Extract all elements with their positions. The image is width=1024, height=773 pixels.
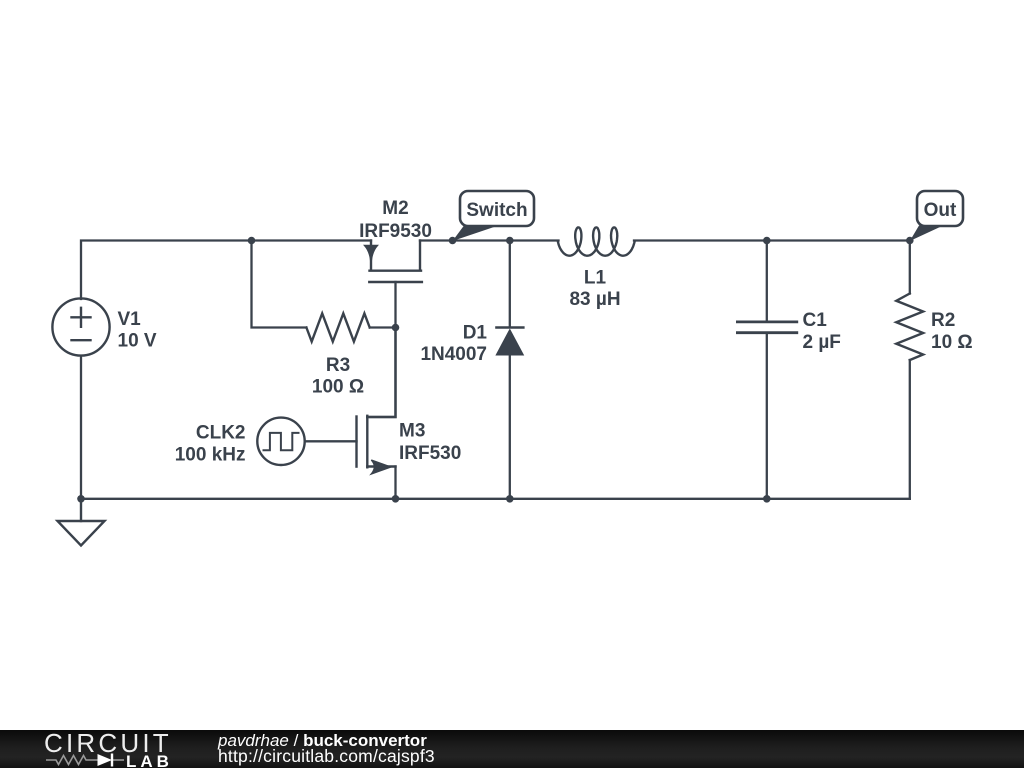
svg-text:C1: C1 (803, 310, 828, 331)
voltage source V1 (52, 298, 109, 355)
svg-text:100 kHz: 100 kHz (175, 445, 246, 466)
wire C1 top lead (766, 241, 768, 322)
wire M3 source to bottom rail (394, 467, 396, 499)
resistor R2 (896, 294, 923, 361)
footer title (218, 731, 427, 751)
clock source CLK2 (257, 418, 304, 465)
wire R3 branch from top rail (252, 241, 307, 328)
svg-text:10 Ω: 10 Ω (931, 332, 973, 353)
node junction D1 bottom (506, 495, 514, 503)
svg-text:R2: R2 (931, 310, 955, 331)
footer bar (0, 730, 1024, 768)
resistor R3 (306, 313, 369, 341)
node Switch (449, 237, 457, 245)
flag Switch (453, 191, 535, 241)
svg-text:V1: V1 (118, 309, 142, 330)
svg-text:IRF9530: IRF9530 (359, 221, 432, 242)
node junction R3 gate (392, 324, 400, 332)
wire bottom rail (81, 498, 910, 500)
node junction M3 source (392, 495, 400, 503)
svg-text:83 µH: 83 µH (569, 289, 620, 310)
wire V1 top lead to M2 source (81, 241, 371, 300)
transistor M2 PMOS (365, 241, 422, 283)
node junction ground (77, 495, 85, 503)
capacitor C1 (737, 322, 796, 333)
svg-text:M3: M3 (399, 421, 425, 442)
wire M2 gate lead (394, 282, 396, 328)
inductor L1 (558, 227, 635, 255)
wire M2 drain to L1 (420, 239, 559, 241)
node junction C1 bottom (763, 495, 771, 503)
svg-text:1N4007: 1N4007 (420, 344, 487, 365)
svg-text:CLK2: CLK2 (196, 423, 246, 444)
node junction top R3 (248, 237, 256, 245)
ground (58, 499, 105, 546)
node Out (906, 237, 914, 245)
wire R2 top lead (909, 241, 911, 294)
svg-text:M2: M2 (382, 198, 408, 219)
svg-text:100 Ω: 100 Ω (312, 377, 364, 398)
wire CLK2 to M3 gate (305, 440, 357, 442)
svg-text:Out: Out (924, 200, 957, 221)
wire R2 bottom lead (909, 360, 911, 499)
node junction C1 top (763, 237, 771, 245)
transistor M3 NMOS (357, 328, 396, 475)
CircuitLab logo (44, 729, 219, 768)
svg-text:Switch: Switch (466, 200, 527, 221)
svg-text:2 µF: 2 µF (803, 332, 841, 353)
wire C1 bottom lead (766, 334, 768, 499)
svg-text:D1: D1 (463, 322, 488, 343)
wire R3 to gate node (370, 326, 396, 328)
svg-text:10 V: 10 V (118, 331, 157, 352)
flag Out (910, 191, 963, 241)
svg-text:IRF530: IRF530 (399, 443, 461, 464)
svg-text:LAB: LAB (126, 752, 173, 768)
footer url (218, 746, 435, 767)
wire L1 to Out node (634, 239, 910, 241)
svg-text:R3: R3 (326, 355, 350, 376)
wire V1 bottom lead (80, 356, 82, 499)
wire D1 cathode to switch node (509, 241, 511, 328)
diode D1 (496, 328, 523, 356)
wire gate node to M3 drain (367, 328, 395, 418)
node junction D1 top (506, 237, 514, 245)
svg-text:L1: L1 (584, 268, 607, 289)
wire D1 anode to bottom rail (509, 354, 511, 499)
